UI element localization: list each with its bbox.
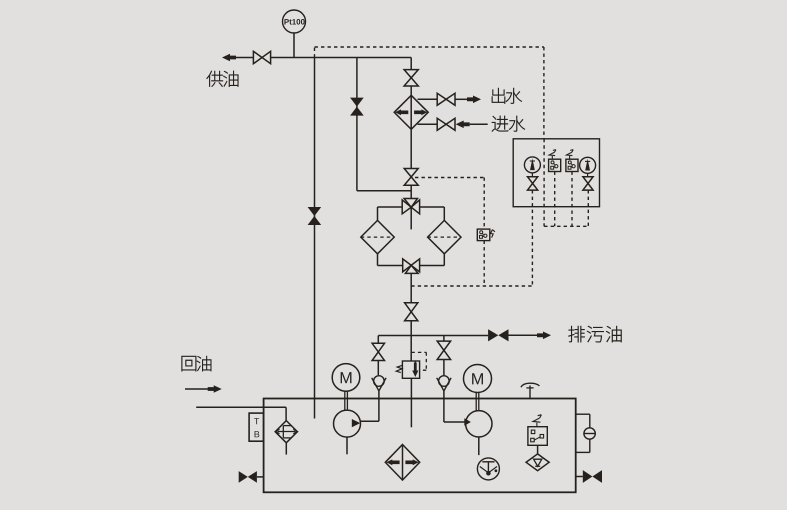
- pressure switch SP1 (filter dP): [477, 229, 495, 241]
- valve V3 cooler bypass (closed): [350, 98, 364, 116]
- label ChuShui (water out): [492, 88, 522, 104]
- wire CV2 to pump2: [444, 391, 471, 426]
- signal PS1 line: [554, 172, 556, 227]
- valve V15 gauge isolation: [583, 173, 593, 190]
- wire return line: [196, 407, 286, 420]
- motor M2: [464, 365, 492, 393]
- tank outline: [264, 399, 576, 493]
- wire pump1 branch: [377, 336, 379, 376]
- signal pressure tap: [411, 285, 532, 287]
- wire Pt100 stem: [293, 33, 295, 58]
- temperature gauge TG1: [477, 458, 499, 480]
- wire LS1 to indicator: [537, 445, 539, 454]
- check valve CV2: [437, 376, 451, 391]
- signal dashed rail: [315, 47, 544, 139]
- valve V14 gauge isolation: [528, 173, 538, 190]
- valve V10 pump1 discharge: [372, 343, 384, 360]
- wire CV1 to pump1: [360, 391, 379, 421]
- wire cooler outlet: [410, 129, 412, 168]
- wire header riser: [410, 321, 412, 361]
- arrow water out: [467, 96, 481, 104]
- filter F2: [428, 220, 461, 253]
- wire cooler feed: [410, 58, 412, 70]
- label PaiWuYou (drain oil): [569, 326, 622, 342]
- arrow water in: [456, 121, 470, 129]
- return diffuser E1: [275, 421, 297, 443]
- valve V12 tank drain left (closed): [239, 471, 264, 483]
- wire to 3-way: [410, 185, 412, 198]
- instrument Pt100 temperature sensor: [283, 10, 306, 33]
- level switch LS1: [528, 415, 547, 446]
- arrow return oil: [185, 385, 222, 393]
- signal PG1 sensing line: [531, 190, 533, 285]
- pump P2: [466, 411, 492, 437]
- wire water out line: [418, 98, 468, 100]
- pressure switch PS1: [549, 150, 561, 172]
- label GongYou (supply oil): [207, 71, 239, 87]
- flow diffuser D1 in tank: [385, 445, 419, 481]
- filter F1: [361, 220, 394, 253]
- valve V2 bypass (closed): [308, 207, 322, 225]
- pump P1: [334, 410, 361, 437]
- signal rail drop: [543, 139, 545, 227]
- wire F1 outlet: [378, 254, 403, 266]
- wire tank return drop: [410, 378, 412, 427]
- wire cooler bypass line B: [357, 58, 411, 191]
- wire valve to cooler: [410, 86, 412, 95]
- level gauge LG1: [576, 414, 596, 452]
- signal PS2 line: [571, 172, 573, 227]
- pressure gauge PG1: [524, 157, 540, 173]
- signal dP switch upper: [415, 178, 484, 230]
- arrow drain: [537, 332, 551, 340]
- shaft M2-P2: [476, 393, 479, 411]
- wire diffuser stem: [285, 443, 287, 455]
- breather B1: [521, 383, 540, 398]
- instrument panel box: [513, 139, 599, 207]
- wire pump2 suction: [478, 437, 480, 455]
- arrow supply outlet: [222, 54, 253, 62]
- wire supply header: [271, 57, 412, 59]
- pressure switch PS2: [566, 150, 578, 172]
- valve V7 filter inlet: [404, 169, 418, 186]
- check valve CV1: [372, 376, 386, 391]
- valve T2 three-way (filter changeover bottom): [403, 259, 420, 303]
- valve V9 drain (closed): [488, 329, 508, 341]
- signal dP switch lower: [483, 241, 485, 286]
- valve V6 water inlet: [437, 118, 455, 130]
- wire to filter F1: [378, 207, 403, 220]
- motor M1: [332, 364, 360, 392]
- wire water in line: [418, 123, 488, 125]
- wire bypass line A: [314, 58, 316, 419]
- signal PG2 line: [587, 190, 589, 226]
- valve V13 tank drain right (closed): [576, 470, 602, 483]
- valve V11 pump2 discharge: [437, 341, 450, 359]
- label JinShui (water in): [492, 116, 525, 132]
- wire pump1 suction: [346, 437, 348, 454]
- level/temp gauge TB: [249, 413, 264, 441]
- relief valve RV1: [396, 352, 426, 378]
- valve V5 water outlet: [437, 93, 455, 105]
- pressure gauge PG2: [580, 157, 596, 173]
- wire drain header: [378, 334, 538, 336]
- level indicator LI1: [526, 454, 549, 471]
- label HuiYou (return oil): [182, 356, 212, 371]
- valve V1 supply shutoff: [253, 51, 270, 63]
- signal manifold: [544, 225, 588, 227]
- shaft M1-P1: [345, 391, 348, 410]
- valve V8 pump header shutoff: [405, 303, 418, 321]
- wire pump2 branch: [443, 336, 445, 376]
- wire to filter F2: [420, 207, 445, 220]
- cooler heat-exchanger HX1: [394, 95, 428, 129]
- wire F2 outlet: [420, 254, 445, 266]
- valve V4 cooler inlet: [404, 70, 418, 86]
- valve T1 three-way (filter changeover top): [402, 199, 419, 230]
